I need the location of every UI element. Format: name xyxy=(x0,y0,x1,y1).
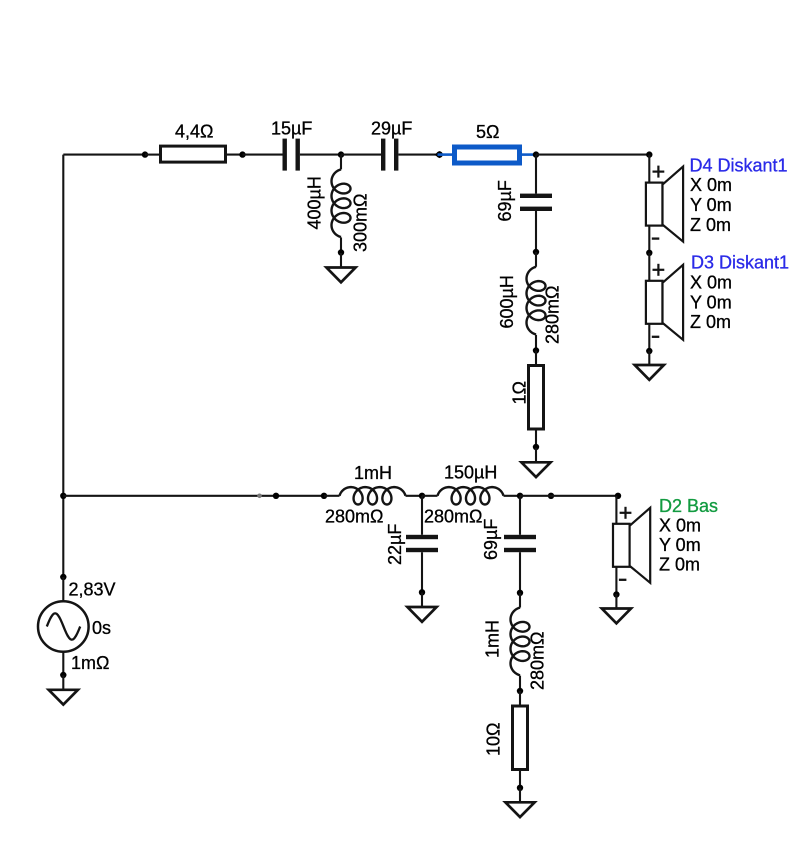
ground below 1Ω xyxy=(521,448,550,477)
wire top rail segment 2 xyxy=(536,154,649,156)
ground below D2 xyxy=(602,594,631,623)
svg-text:69µF: 69µF xyxy=(481,519,501,560)
node junction after 5Ω xyxy=(533,151,539,157)
speaker D3 Diskant1 xyxy=(646,253,683,352)
inductor 1mH series xyxy=(324,487,422,504)
inductor 150µH series xyxy=(422,487,520,504)
wire left vertical xyxy=(62,155,64,577)
svg-text:22µF: 22µF xyxy=(385,524,405,565)
svg-text:1Ω: 1Ω xyxy=(510,381,530,404)
svg-text:1mH: 1mH xyxy=(354,463,392,483)
node junction below 10Ω xyxy=(517,785,523,791)
node junction below 1mH vertical xyxy=(517,688,523,694)
speaker D4 Diskant1 xyxy=(646,155,683,254)
node junction bottom rail at left column xyxy=(60,493,66,499)
svg-text:D2 Bas: D2 Bas xyxy=(659,496,718,516)
svg-text:1mΩ: 1mΩ xyxy=(71,653,109,673)
resistor 5Ω selected blue xyxy=(438,147,537,163)
node junction below 69µF xyxy=(533,249,539,255)
node junction at D2 xyxy=(615,493,621,499)
node junction at 1mH left pin xyxy=(321,493,327,499)
node junction below D3 xyxy=(646,348,652,354)
node junction above source xyxy=(60,574,66,580)
svg-text:10Ω: 10Ω xyxy=(484,723,504,756)
stray gray dot xyxy=(257,494,262,499)
node junction on bottom rail xyxy=(273,493,279,499)
inductor 600µH xyxy=(527,252,546,350)
svg-text:600µH: 600µH xyxy=(497,275,517,328)
svg-text:Z 0m: Z 0m xyxy=(690,312,731,332)
node junction below 69µF bottom xyxy=(517,590,523,596)
node junction below 400µH xyxy=(338,249,344,255)
svg-text:Z 0m: Z 0m xyxy=(659,555,700,575)
svg-text:280mΩ: 280mΩ xyxy=(543,286,563,344)
svg-text:280mΩ: 280mΩ xyxy=(424,507,482,527)
svg-text:280mΩ: 280mΩ xyxy=(528,632,548,690)
svg-text:400µH: 400µH xyxy=(305,176,325,229)
svg-text:15µF: 15µF xyxy=(271,119,312,139)
node junction below D2 xyxy=(613,591,619,597)
resistor 10Ω xyxy=(513,691,528,788)
inductor 1mH vertical xyxy=(511,593,530,691)
svg-text:D4 Diskant1: D4 Diskant1 xyxy=(690,156,788,176)
node junction below source xyxy=(60,672,66,678)
svg-text:X 0m: X 0m xyxy=(659,516,701,536)
svg-text:1mH: 1mH xyxy=(483,620,503,658)
svg-text:Y 0m: Y 0m xyxy=(690,293,732,313)
svg-text:5Ω: 5Ω xyxy=(476,122,499,142)
capacitor 29µF xyxy=(341,139,440,171)
svg-text:300mΩ: 300mΩ xyxy=(351,194,371,252)
ground below D3 xyxy=(635,351,664,380)
node junction between 1mH and 150µH xyxy=(419,493,425,499)
capacitor 22µF shunt xyxy=(406,496,438,593)
resistor 1Ω xyxy=(529,351,544,448)
wire bottom rail segment 2 xyxy=(520,495,618,497)
node junction after 150µH xyxy=(517,493,523,499)
ground below 10Ω xyxy=(505,788,534,817)
node junction below 22µF xyxy=(419,589,425,595)
wire bottom rail segment 1 xyxy=(63,495,324,497)
node junction after resistor xyxy=(239,151,245,157)
node junction below 600µH xyxy=(533,347,539,353)
svg-text:280mΩ: 280mΩ xyxy=(325,507,383,527)
wire top rail segment 1 xyxy=(63,154,145,156)
svg-text:2,83V: 2,83V xyxy=(69,580,116,600)
ground below 22µF xyxy=(407,593,436,622)
svg-text:X 0m: X 0m xyxy=(690,175,732,195)
speaker D2 Bas xyxy=(613,496,650,595)
node junction at 400µH tap xyxy=(338,151,344,157)
svg-text:29µF: 29µF xyxy=(371,119,412,139)
inductor 400µH shunt xyxy=(332,155,351,253)
node junction between D4 and D3 xyxy=(646,250,652,256)
node junction top rail left xyxy=(142,151,148,157)
svg-text:4,4Ω: 4,4Ω xyxy=(175,122,213,142)
svg-text:X 0m: X 0m xyxy=(690,273,732,293)
svg-text:150µH: 150µH xyxy=(444,463,497,483)
capacitor 69µF shunt top xyxy=(520,155,552,252)
svg-text:Z 0m: Z 0m xyxy=(690,215,731,235)
wire end marker arrow xyxy=(434,151,440,158)
capacitor 15µF xyxy=(243,139,342,171)
ground below source xyxy=(49,675,78,704)
node junction below 1Ω xyxy=(533,444,539,450)
svg-text:D3 Diskant1: D3 Diskant1 xyxy=(691,253,789,273)
svg-text:Y 0m: Y 0m xyxy=(659,535,701,555)
ground below 400µH xyxy=(326,253,355,282)
svg-text:69µF: 69µF xyxy=(495,180,515,221)
svg-text:Y 0m: Y 0m xyxy=(690,195,732,215)
svg-text:0s: 0s xyxy=(92,618,111,638)
voltage source V1 sine xyxy=(38,577,89,675)
node junction at D4 xyxy=(646,151,652,157)
resistor 4,4Ω xyxy=(145,146,242,162)
capacitor 69µF shunt bottom xyxy=(504,496,536,593)
node junction wire joint xyxy=(548,493,554,499)
